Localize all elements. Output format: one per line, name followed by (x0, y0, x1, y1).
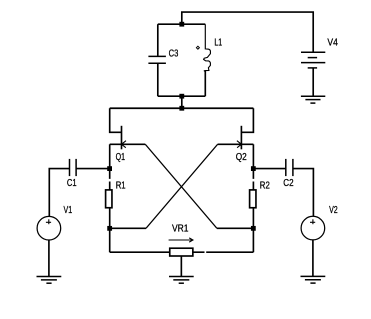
wire: bottom right node to bottom rail (252, 228, 254, 252)
node: C1/R1 junction (107, 166, 112, 171)
svg-text:V1: V1 (64, 205, 73, 216)
resistor R2 (250, 190, 256, 208)
capacitor C3 (148, 24, 166, 96)
wire: VR1 wiper to ground (180, 256, 182, 276)
wire: bottom rail left segment (110, 251, 170, 253)
wire: Q1 emitter diagonal to bottom right node (145, 144, 253, 228)
resistor R1 (106, 190, 112, 208)
svg-text:V2: V2 (329, 205, 338, 216)
wire: junction to R1 (with break) (109, 169, 111, 190)
wire: right node to C2 (253, 168, 285, 170)
wire: tank bottom to collector rail (181, 96, 183, 108)
wire: tank top rail (158, 23, 206, 25)
node: tank top junction (179, 22, 184, 27)
ground (VR1) (169, 277, 194, 284)
wire: left node to C1 (76, 168, 110, 170)
polarity dot of L1 (196, 46, 199, 49)
wire: Q2 emitter diagonal to bottom left node (110, 144, 218, 228)
svg-text:Q2: Q2 (236, 152, 247, 163)
wire: V2 to ground (312, 240, 314, 276)
wire: tank top node to V4 positive terminal (182, 12, 313, 52)
node: tank bottom junction (179, 94, 184, 99)
battery V4 (301, 52, 325, 68)
wire: tank bottom rail (158, 95, 206, 97)
wire: R1 bottom to bottom left node (109, 208, 111, 229)
svg-text:R1: R1 (116, 181, 126, 192)
capacitor C1 (70, 159, 77, 176)
ground (V4) (301, 96, 325, 103)
svg-text:C2: C2 (283, 178, 294, 189)
ground (V2) (301, 276, 326, 283)
svg-text:Q1: Q1 (116, 152, 126, 163)
wire: bottom left node to bottom rail (109, 228, 111, 252)
potentiometer VR1 (169, 238, 193, 256)
wire: junction to R2 (with break) (252, 169, 254, 190)
wire: collector rail (110, 107, 254, 109)
wire: C2 to V2 (293, 169, 314, 217)
wire: V1 to ground (48, 240, 50, 276)
source V1 (37, 216, 61, 240)
wire: V4 negative terminal to ground (312, 68, 314, 96)
ground (V1) (37, 277, 62, 284)
inductor L1 (204, 24, 211, 96)
svg-text:V4: V4 (327, 38, 338, 49)
wire: R2 bottom to bottom right node (252, 208, 254, 229)
wire: Q2 base drop (252, 144, 254, 168)
transistor Q2 (218, 108, 254, 149)
svg-text:C1: C1 (67, 178, 77, 189)
source V2 (301, 216, 325, 240)
wire: C1 to V1 (49, 169, 69, 217)
capacitor C2 (286, 159, 293, 176)
node: C2/R2 junction (251, 166, 256, 171)
transistor Q1 (110, 108, 146, 149)
wire: bottom rail right segment (with break) (193, 251, 254, 253)
node: collector rail junction (179, 106, 184, 111)
wire: Q1 base drop (109, 144, 111, 168)
svg-text:L1: L1 (214, 38, 222, 49)
svg-text:C3: C3 (169, 48, 179, 59)
svg-text:R2: R2 (260, 181, 270, 192)
node: bottom right junction (251, 226, 256, 231)
svg-text:VR1: VR1 (172, 224, 189, 235)
node: bottom left junction (107, 226, 112, 231)
